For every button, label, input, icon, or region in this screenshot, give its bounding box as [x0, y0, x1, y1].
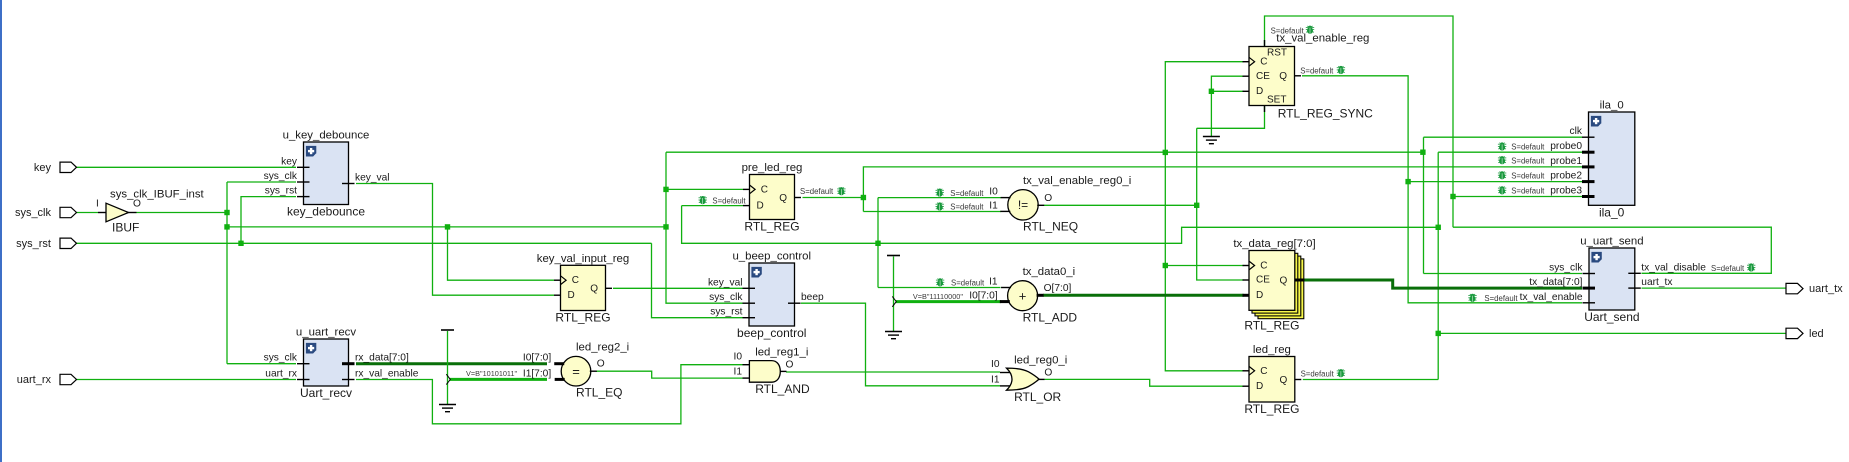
mark S=default pre_led_reg.D: [699, 196, 707, 202]
svg-text:u_key_debounce: u_key_debounce: [283, 130, 370, 142]
svg-text:led_reg1_i: led_reg1_i: [755, 347, 808, 359]
wire sys_clk row y152: [666, 151, 1423, 153]
svg-text:C: C: [572, 275, 579, 286]
register tx_data_reg[7:0] (RTL_REG): [1233, 238, 1315, 333]
wire sys_clk vertical x666 to u_beep_control.sys_clk: [666, 152, 743, 303]
svg-text:probe1: probe1: [1550, 156, 1582, 167]
svg-text:Q: Q: [590, 284, 598, 295]
svg-text:S=default: S=default: [1484, 294, 1518, 303]
ground constant 10101011 gnd: [439, 405, 456, 412]
wire led vertical x1438: [1437, 152, 1439, 379]
wire tx_val_disable to ila probe3: [1453, 196, 1582, 198]
junction tx_data_reg C tap: [1163, 263, 1168, 268]
svg-text:sys_clk: sys_clk: [709, 292, 743, 303]
wire tx_val_disable to Uart_send: [1453, 227, 1771, 273]
wire led net to led port: [1438, 332, 1786, 334]
wire sys_clk to ila clk: [1424, 136, 1583, 138]
mark S=default ila probe2: [1498, 172, 1506, 178]
junction sys_clk x666: [663, 224, 668, 229]
svg-text:key: key: [281, 156, 298, 167]
junction key_val_input_reg C tap: [445, 224, 450, 229]
operator led_reg2_i (RTL_EQ): [523, 342, 629, 400]
svg-text:S=default: S=default: [950, 189, 984, 198]
wire RTL_EQ.O to RTL_AND.I1: [596, 371, 743, 378]
svg-text:S=default: S=default: [950, 203, 984, 212]
svg-text:Q: Q: [1280, 275, 1288, 286]
svg-text:RTL_NEQ: RTL_NEQ: [1023, 220, 1078, 234]
svg-text:led: led: [1809, 328, 1824, 340]
svg-text:led_reg: led_reg: [1253, 344, 1291, 356]
wire rx_val_enable to RTL_AND.I0: [356, 365, 743, 424]
svg-text:led_reg0_i: led_reg0_i: [1014, 355, 1067, 367]
power T-bar constant 10101011: [441, 329, 454, 331]
svg-text:O: O: [1044, 368, 1052, 379]
svg-text:uart_rx: uart_rx: [265, 369, 297, 380]
svg-text:S=default: S=default: [712, 196, 746, 205]
power T-bar constant 11110000: [887, 255, 900, 257]
svg-text:ila_0: ila_0: [1600, 100, 1624, 112]
svg-text:tx_val_disable: tx_val_disable: [1641, 262, 1706, 273]
register led_reg (RTL_REG): [1243, 344, 1302, 416]
svg-text:sys_rst: sys_rst: [265, 186, 297, 197]
junction sys_clk x1165: [1163, 150, 1168, 155]
wire beep to RTL_OR.I1: [801, 303, 1000, 386]
svg-text:S=default: S=default: [1511, 143, 1545, 152]
svg-text:RTL_ADD: RTL_ADD: [1023, 310, 1078, 324]
svg-text:CE: CE: [1256, 275, 1270, 286]
wire bus constant 10101011 to RTL_EQ.I1: [450, 378, 547, 381]
operator tx_data0_i (RTL_ADD): [969, 266, 1077, 325]
svg-text:sys_clk: sys_clk: [264, 353, 298, 364]
svg-text:uart_tx: uart_tx: [1809, 283, 1843, 295]
svg-text:uart_rx: uart_rx: [17, 374, 52, 386]
svg-text:led_reg2_i: led_reg2_i: [576, 342, 629, 354]
svg-text:clk: clk: [1570, 126, 1583, 137]
wire pre_led_reg.Q output: [803, 197, 864, 199]
svg-text:O: O: [786, 360, 794, 371]
svg-text:Uart_send: Uart_send: [1584, 310, 1639, 324]
wire bus constant 11110000 to RTL_ADD.I0: [896, 300, 1001, 303]
svg-text:key_debounce: key_debounce: [287, 205, 365, 219]
svg-text:I0[7:0]: I0[7:0]: [969, 291, 997, 302]
mark S=default RTL_NEQ.I1: [936, 203, 944, 209]
wire key_val_input_reg.Q to u_beep_control.key_val: [613, 287, 743, 289]
svg-text:I: I: [96, 199, 99, 210]
wire bus RTL_ADD.O to tx_data_reg.D: [1043, 294, 1244, 297]
wire led net to pre_led_reg.D: [682, 205, 743, 207]
register pre_led_reg (RTL_REG): [742, 162, 803, 233]
svg-text:!=: !=: [1018, 198, 1028, 212]
wire sys_clk port to IBUF input: [76, 212, 98, 214]
wire tx_val_enable to ila probe2: [1408, 181, 1582, 183]
wire pre_led net to ila probe1: [863, 167, 1582, 212]
svg-text:tx_val_enable: tx_val_enable: [1520, 292, 1583, 303]
svg-text:D: D: [568, 290, 575, 301]
wire led feedback row: [682, 206, 1439, 244]
input port sys_clk: [60, 207, 77, 217]
svg-text:probe0: probe0: [1550, 141, 1582, 152]
svg-text:RTL_REG: RTL_REG: [555, 311, 610, 325]
junction REG_SYNC D gnd tap: [1209, 89, 1214, 94]
svg-text:key_val: key_val: [708, 277, 743, 288]
mark S=default RTL_ADD.I1: [936, 279, 944, 285]
mark S=default Uart_send.tx_val_enable: [1468, 294, 1476, 300]
svg-text:C: C: [1260, 57, 1267, 68]
wire RTL_AND.O to RTL_OR.I0: [786, 371, 1000, 373]
junction led port tap: [1436, 331, 1441, 336]
wire RTL_NEQ.O output: [1044, 204, 1197, 206]
svg-text:Q: Q: [1280, 375, 1288, 386]
svg-text:O[7:0]: O[7:0]: [1044, 283, 1072, 294]
svg-text:rx_val_enable: rx_val_enable: [355, 369, 419, 380]
operator tx_val_enable_reg0_i (RTL_NEQ): [989, 175, 1131, 234]
ground constant 11110000 gnd: [885, 332, 902, 339]
svg-text:I1: I1: [734, 367, 743, 378]
register tx_val_enable_reg (RTL_REG_SYNC): [1243, 33, 1374, 121]
svg-text:tx_data[7:0]: tx_data[7:0]: [1529, 277, 1582, 288]
wire key_val to key_val_input_reg.D: [356, 184, 554, 296]
svg-text:I1[7:0]: I1[7:0]: [523, 368, 551, 379]
wire uart_rx port to u_uart_recv.uart_rx: [76, 379, 296, 381]
svg-text:RTL_REG_SYNC: RTL_REG_SYNC: [1278, 107, 1373, 121]
svg-text:+: +: [1019, 288, 1027, 303]
svg-text:SET: SET: [1267, 94, 1286, 105]
svg-text:I0[7:0]: I0[7:0]: [523, 353, 551, 364]
wire sys_clk tap to key_val_input_reg.C: [448, 227, 555, 280]
module u_key_debounce (key_debounce): [264, 130, 390, 219]
module u_uart_send (Uart_send): [1520, 236, 1707, 324]
junction led feedback tap: [875, 241, 880, 246]
gate led_reg1_i (RTL_AND): [734, 347, 810, 397]
wire RTL_OR.O to led_reg.D: [1045, 379, 1244, 386]
svg-text:key_val_input_reg: key_val_input_reg: [537, 253, 629, 265]
svg-text:Q: Q: [779, 193, 787, 204]
wire sys_clk tap to tx_data_reg.C: [1165, 265, 1243, 267]
wire led net to RTL_NEQ.I0: [878, 197, 1001, 199]
junction NEQ out / SET: [1194, 203, 1199, 208]
register key_val_input_reg (RTL_REG): [537, 253, 629, 325]
canvas left border: [0, 0, 2, 462]
svg-text:I1: I1: [989, 277, 998, 288]
svg-text:I1: I1: [989, 200, 998, 211]
svg-text:sys_clk_IBUF_inst: sys_clk_IBUF_inst: [110, 188, 205, 200]
svg-text:RTL_REG: RTL_REG: [1244, 319, 1299, 333]
wire constant 10101011 vertical: [447, 331, 449, 405]
wire led net to ila probe0: [1438, 151, 1582, 153]
svg-text:key_val: key_val: [355, 173, 390, 184]
svg-text:probe2: probe2: [1550, 171, 1582, 182]
wire sys_clk vertical x227: [226, 182, 228, 364]
gate led_reg0_i (RTL_OR): [991, 355, 1067, 404]
svg-text:RTL_OR: RTL_OR: [1014, 390, 1061, 404]
wire sys_clk vertical x1423: [1423, 137, 1425, 273]
junction pre_led Q fanout: [861, 195, 866, 200]
svg-text:u_uart_send: u_uart_send: [1580, 236, 1643, 248]
junction sys_clk to ila clk: [1420, 150, 1425, 155]
svg-text:S=default: S=default: [1271, 26, 1305, 35]
output port led: [1786, 328, 1803, 338]
input port key: [60, 162, 77, 172]
wire pre_led net to RTL_NEQ.I1: [863, 211, 1001, 213]
wire led_reg.Q output: [1303, 379, 1438, 381]
svg-text:ila_0: ila_0: [1599, 205, 1625, 219]
svg-text:D: D: [757, 200, 764, 211]
wire tx_val_disable from RTL_REG_SYNC.RST: [1265, 16, 1454, 227]
svg-text:sys_clk: sys_clk: [264, 171, 298, 182]
svg-text:RTL_AND: RTL_AND: [755, 382, 810, 396]
svg-text:sys_rst: sys_rst: [710, 307, 742, 318]
wire bus rx_data[7:0] to RTL_EQ.I0: [356, 362, 547, 365]
wire sys_clk to u_key_debounce.sys_clk: [227, 181, 296, 183]
svg-text:RTL_REG: RTL_REG: [744, 220, 799, 234]
junction led feedback row tap: [1436, 225, 1441, 230]
svg-text:tx_data_reg[7:0]: tx_data_reg[7:0]: [1233, 238, 1315, 250]
svg-text:key: key: [34, 162, 52, 174]
wire sys_rst row from port: [76, 242, 652, 244]
svg-text:rx_data[7:0]: rx_data[7:0]: [355, 353, 409, 364]
svg-text:RTL_REG: RTL_REG: [1244, 402, 1299, 416]
svg-text:V=B"11110000": V=B"11110000": [913, 292, 963, 301]
junction probe2 tap: [1405, 179, 1410, 184]
ground RTL_REG_SYNC CE/D gnd: [1203, 137, 1220, 144]
svg-text:beep_control: beep_control: [737, 326, 806, 340]
svg-text:probe3: probe3: [1550, 186, 1582, 197]
svg-text:RTL_EQ: RTL_EQ: [576, 386, 622, 400]
svg-text:D: D: [1256, 290, 1263, 301]
svg-text:tx_val_enable_reg0_i: tx_val_enable_reg0_i: [1023, 175, 1131, 187]
svg-text:V=B"10101011": V=B"10101011": [466, 369, 518, 378]
wire sys_clk tap to pre_led_reg.C: [666, 188, 743, 190]
svg-text:u_uart_recv: u_uart_recv: [296, 327, 356, 339]
wire led net to RTL_ADD.I1: [878, 287, 1001, 289]
svg-text:sys_rst: sys_rst: [16, 238, 51, 250]
svg-text:C: C: [1260, 366, 1267, 377]
mark S=default RTL_NEQ.I0: [936, 189, 944, 195]
svg-text:D: D: [1256, 86, 1263, 97]
svg-text:C: C: [1260, 261, 1267, 272]
svg-text:sys_clk: sys_clk: [1549, 263, 1583, 274]
svg-text:beep: beep: [801, 292, 824, 303]
wire uart_tx to port: [1642, 287, 1787, 289]
junction sys_rst tap: [238, 241, 243, 246]
svg-text:uart_tx: uart_tx: [1641, 277, 1672, 288]
module u_uart_recv (Uart_recv): [264, 327, 419, 400]
wire tx_val_enable0 vertical to tx_data_reg.CE: [1197, 128, 1244, 280]
svg-text:I0: I0: [989, 187, 998, 198]
svg-text:IBUF: IBUF: [112, 221, 139, 235]
svg-text:S=default: S=default: [1301, 370, 1335, 379]
wire sys_rst up to u_key_debounce.sys_rst: [241, 197, 296, 244]
svg-text:I0: I0: [991, 359, 1000, 370]
svg-text:=: =: [572, 364, 580, 379]
svg-text:I1: I1: [991, 374, 1000, 385]
mark S=default ila probe0: [1498, 143, 1506, 149]
junction IBUF out / sys_clk: [224, 210, 229, 215]
svg-text:RST: RST: [1267, 47, 1287, 58]
svg-text:pre_led_reg: pre_led_reg: [742, 162, 803, 174]
mark S=default ila probe3: [1498, 187, 1506, 193]
wire bus tx_data_reg.Q to Uart_send.tx_data: [1303, 280, 1582, 288]
svg-text:tx_data0_i: tx_data0_i: [1023, 266, 1076, 278]
wire sys_clk row y227: [227, 226, 666, 228]
svg-text:sys_clk: sys_clk: [15, 207, 52, 219]
mark S=default ila probe1: [1498, 156, 1506, 162]
wire ground to RTL_REG_SYNC.D: [1211, 90, 1243, 92]
wire constant 11110000 vertical: [893, 257, 895, 332]
junction pre_led_reg C tap: [663, 187, 668, 192]
wire tx_val_enable0 to RTL_REG_SYNC.SET: [1197, 106, 1265, 129]
junction probe3 tap: [1450, 194, 1455, 199]
svg-text:S=default: S=default: [1511, 187, 1545, 196]
svg-text:u_beep_control: u_beep_control: [732, 251, 811, 263]
svg-text:Q: Q: [1279, 71, 1287, 82]
wire sys_clk to Uart_send.sys_clk: [1424, 273, 1583, 275]
svg-text:C: C: [761, 184, 768, 195]
module ila_0 (ila_0): [1550, 100, 1635, 220]
wire key port to u_key_debounce.key: [76, 166, 296, 168]
wire sys_clk to u_uart_recv.sys_clk: [227, 363, 296, 365]
svg-text:S=default: S=default: [800, 187, 834, 196]
svg-text:S=default: S=default: [951, 279, 985, 288]
wire IBUF output to sys_clk node: [137, 212, 228, 214]
wire RTL_REG_SYNC.CE to ground: [1211, 76, 1243, 136]
wire led feedback vertical x878: [877, 198, 879, 288]
svg-text:S=default: S=default: [1300, 67, 1334, 76]
output port uart_tx: [1786, 283, 1803, 293]
svg-text:S=default: S=default: [1711, 264, 1745, 273]
svg-text:O: O: [1044, 193, 1052, 204]
junction sys_clk row tap: [224, 224, 229, 229]
svg-text:Uart_recv: Uart_recv: [300, 386, 352, 400]
wire tx_val_enable from RTL_REG_SYNC.Q to Uart_send: [1302, 76, 1582, 303]
wire sys_rst down to u_beep_control.sys_rst: [652, 243, 743, 317]
svg-text:S=default: S=default: [1511, 172, 1545, 181]
input port sys_rst: [60, 238, 77, 248]
svg-text:O: O: [597, 359, 605, 370]
buffer sys_clk_IBUF_inst (IBUF): [96, 188, 205, 234]
svg-text:S=default: S=default: [1511, 156, 1545, 165]
wire sys_clk to RTL_REG_SYNC.C and led_reg.C: [1165, 62, 1243, 371]
svg-text:I0: I0: [734, 352, 743, 363]
module u_beep_control (beep_control): [708, 251, 824, 340]
svg-text:D: D: [1256, 381, 1263, 392]
input port uart_rx: [60, 374, 77, 384]
svg-text:CE: CE: [1256, 71, 1270, 82]
